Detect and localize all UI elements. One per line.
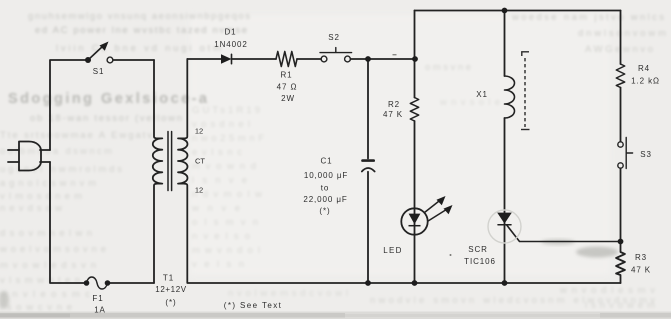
svg-text:SCR: SCR [468, 245, 488, 254]
svg-text:S3: S3 [640, 150, 652, 159]
svg-text:CT: CT [195, 157, 205, 166]
svg-text:D1: D1 [224, 28, 236, 37]
svg-text:S2: S2 [328, 33, 340, 42]
svg-text:12: 12 [195, 127, 203, 136]
svg-text:1A: 1A [94, 306, 106, 315]
svg-text:12+12V: 12+12V [155, 285, 186, 294]
svg-text:10,000 μF: 10,000 μF [304, 171, 348, 180]
svg-text:12: 12 [195, 186, 203, 195]
svg-text:lviin CL bne vd nugi otm: lviin CL bne vd nugi otm [56, 43, 221, 54]
svg-text:Sdogging Gexlsioce-a: Sdogging Gexlsioce-a [8, 91, 208, 107]
svg-text:47 Ω: 47 Ω [277, 83, 298, 92]
svg-text:F1: F1 [92, 294, 103, 303]
svg-text:X1: X1 [476, 90, 488, 99]
svg-text:47 K: 47 K [383, 110, 403, 119]
svg-text:2W: 2W [281, 94, 295, 103]
svg-text:(*): (*) [165, 298, 176, 307]
svg-text:TIC106: TIC106 [464, 257, 496, 266]
svg-text:S1: S1 [93, 67, 105, 76]
svg-text:1.2 kΩ: 1.2 kΩ [631, 77, 660, 86]
svg-text:T1: T1 [163, 274, 174, 283]
svg-text:(*) See Text: (*) See Text [224, 301, 282, 310]
svg-text:C1: C1 [320, 157, 332, 166]
svg-text:1N4002: 1N4002 [214, 40, 247, 49]
svg-text:LED: LED [383, 246, 402, 255]
svg-text:R4: R4 [638, 64, 650, 73]
svg-text:22,000 μF: 22,000 μF [303, 195, 347, 204]
svg-text:(*): (*) [319, 207, 330, 216]
svg-text:R2: R2 [388, 100, 400, 109]
svg-text:to: to [321, 184, 329, 193]
svg-text:R1: R1 [280, 71, 292, 80]
svg-text:R3: R3 [635, 253, 647, 262]
svg-text:wnvleosmc: wnvleosmc [0, 289, 90, 300]
svg-text:ob 18-wan tessor (vellown: ob 18-wan tessor (vellown [30, 113, 182, 124]
svg-text:47 K: 47 K [631, 266, 651, 275]
svg-text:AWGewnvo: AWGewnvo [585, 44, 653, 55]
